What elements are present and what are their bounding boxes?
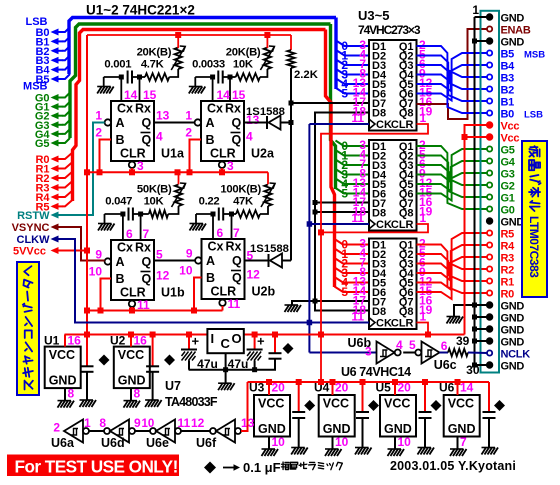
svg-text:20K(B): 20K(B) bbox=[137, 47, 172, 59]
wires blue fan to U3 D1-D6 bbox=[336, 41, 369, 47]
svg-text:1S1588: 1S1588 bbox=[250, 243, 289, 255]
svg-text:B1: B1 bbox=[501, 97, 515, 109]
pin bubble CLR of U2b bbox=[219, 300, 225, 306]
svg-text:10: 10 bbox=[142, 418, 155, 430]
svg-text:U2b: U2b bbox=[252, 285, 276, 299]
junction CLR at Vcc rail bbox=[318, 332, 324, 338]
wire Cx pin riser pin 14 bbox=[120, 77, 122, 101]
junction input cap at rail bbox=[186, 332, 192, 338]
wire pullup node vertical bbox=[290, 68, 292, 261]
resistor 10K bbox=[230, 76, 236, 78]
wire U2 GND pin 8 bbox=[130, 388, 132, 400]
pin bubble CLR of U1b bbox=[129, 301, 135, 307]
wire 5VVcc input to rail bbox=[59, 250, 87, 252]
junction Cx pin node bbox=[120, 212, 125, 217]
note text multilayer ceramic bbox=[281, 462, 288, 469]
wire U2b Q to diode D2 bbox=[245, 260, 269, 262]
wire node to U3 D7 bbox=[291, 102, 369, 104]
wire U6f output to 3.3V rail bbox=[241, 382, 248, 431]
ground bypass bbox=[355, 448, 372, 455]
ground U4 bbox=[325, 449, 342, 456]
svg-text:Q8: Q8 bbox=[399, 208, 414, 220]
wire GND bundle to ground symbol bbox=[454, 305, 475, 316]
svg-text:GND: GND bbox=[118, 374, 146, 388]
svg-text:7: 7 bbox=[460, 435, 467, 449]
junction 3.3V rail x=298.7 bbox=[296, 379, 302, 385]
svg-text:12: 12 bbox=[156, 269, 170, 283]
svg-text:U2a: U2a bbox=[251, 147, 275, 161]
connector pin 4 B5 bbox=[487, 50, 492, 55]
wire resistor to NCLK pin bbox=[468, 352, 487, 355]
svg-text:U6 74VHC14: U6 74VHC14 bbox=[341, 365, 411, 379]
svg-text:GND: GND bbox=[384, 422, 412, 436]
ground last bypass bbox=[482, 448, 499, 455]
svg-text:47K: 47K bbox=[233, 196, 254, 208]
junction GND bundle y=317 bbox=[472, 315, 477, 320]
svg-text:O: O bbox=[232, 331, 242, 346]
wire CLR net U3 bbox=[321, 124, 428, 382]
connector pin 6 B3 bbox=[487, 74, 492, 79]
svg-text:B3: B3 bbox=[501, 73, 515, 85]
power block U4 VCC/GND bbox=[319, 395, 355, 437]
junction Cx pin node bbox=[119, 75, 124, 80]
ground U2 bbox=[124, 401, 141, 408]
wire regulator common pin bbox=[225, 353, 227, 370]
capacitor bypass 0.1uF at x=298.7 bbox=[298, 382, 300, 412]
svg-text:D8: D8 bbox=[372, 306, 386, 318]
connector pin 15 G2 bbox=[487, 182, 492, 187]
junction CLR U5 at rail bbox=[425, 332, 431, 338]
svg-text:U6d: U6d bbox=[101, 436, 125, 450]
junction pot1 Vcc bbox=[175, 32, 181, 38]
ground U3 bbox=[262, 449, 279, 456]
connector pin 27 GND bbox=[487, 326, 493, 332]
connector pin 21 R3 bbox=[487, 254, 492, 259]
ground for 0.22 bbox=[195, 214, 197, 223]
svg-text:5: 5 bbox=[341, 285, 348, 299]
black net U3 D8 to U4 D7 D8 and U5 D7 D8 bbox=[315, 113, 369, 311]
connector pin 3 GND bbox=[487, 38, 493, 44]
svg-text:4.7K: 4.7K bbox=[141, 59, 165, 71]
register U3 74VHC273 bbox=[369, 40, 417, 131]
capacitor 0.0033 bbox=[195, 76, 212, 78]
wire to U5 CK bbox=[309, 322, 369, 324]
svg-text:16: 16 bbox=[134, 334, 148, 348]
wire GND pin row y=17 bbox=[475, 16, 487, 18]
capacitor bypass 1 (U1) bbox=[86, 335, 88, 367]
svg-text:Rx: Rx bbox=[135, 241, 151, 255]
junction Rx pin node bbox=[228, 75, 233, 80]
svg-text:VCC: VCC bbox=[258, 397, 284, 411]
wire GND pin row y=305 bbox=[475, 304, 487, 306]
wire U2a B to Vcc rail bbox=[190, 140, 202, 173]
svg-text:20K(B): 20K(B) bbox=[226, 47, 261, 59]
junction 3.3V rail x=332.5 bbox=[330, 379, 336, 385]
pin bubble U6f output pin 13 bbox=[235, 428, 241, 434]
svg-text:0.1 μF: 0.1 μF bbox=[243, 460, 281, 475]
wire U5 VCC riser pin 20 bbox=[394, 382, 396, 395]
svg-text:MSB: MSB bbox=[524, 50, 545, 61]
junction GND bundle y=365 bbox=[472, 363, 477, 368]
svg-text:A: A bbox=[206, 116, 215, 130]
svg-text:VCC: VCC bbox=[118, 348, 144, 362]
svg-text:RSTW: RSTW bbox=[17, 210, 50, 222]
wire Vcc rail upper (B and CLR of U1a U2a) bbox=[87, 171, 268, 173]
power block U3 VCC/GND bbox=[254, 395, 290, 437]
connector pin 9 B0 bbox=[487, 110, 492, 115]
junction Vcc rail lower x=87 bbox=[84, 308, 90, 314]
svg-text:VCC: VCC bbox=[323, 397, 349, 411]
wire diode D1 to pullup node bbox=[281, 122, 292, 124]
svg-text:G3: G3 bbox=[501, 169, 515, 181]
svg-text:Rx: Rx bbox=[226, 240, 242, 254]
junction pot2 Vcc bbox=[264, 32, 270, 38]
svg-text:0.047: 0.047 bbox=[105, 196, 132, 208]
connector pin 13 G4 bbox=[487, 158, 492, 163]
svg-text:10: 10 bbox=[179, 264, 193, 278]
capacitor 0.047 bbox=[105, 213, 123, 215]
svg-text:8: 8 bbox=[134, 387, 141, 401]
wire to U5 D7 bbox=[315, 300, 369, 302]
wire Cx pin riser pin 6 bbox=[212, 214, 214, 239]
svg-text:2: 2 bbox=[185, 126, 192, 140]
connector pin 22 R2 bbox=[487, 266, 492, 271]
junction 3.3V rail x=395 bbox=[392, 379, 398, 385]
svg-text:LSB: LSB bbox=[524, 110, 543, 121]
svg-text:TA48033F: TA48033F bbox=[165, 395, 218, 409]
junction GND bundle y=41 bbox=[472, 39, 477, 44]
wire Vcc rail y=334.5 left segment (5V) bbox=[65, 334, 208, 336]
svg-text:20: 20 bbox=[335, 381, 349, 395]
wire to U4 CK bbox=[309, 223, 369, 225]
svg-text:U3: U3 bbox=[249, 381, 265, 395]
connector pin 16 G1 bbox=[487, 194, 492, 199]
svg-text:5: 5 bbox=[409, 338, 416, 352]
svg-text:A: A bbox=[116, 255, 125, 269]
wire U1b Q to U2b A bbox=[154, 260, 195, 262]
svg-text:G5: G5 bbox=[501, 145, 515, 157]
svg-text:2003.01.05 Y.Kyotani: 2003.01.05 Y.Kyotani bbox=[390, 459, 516, 473]
svg-text:MSB: MSB bbox=[23, 81, 48, 93]
pin bubble U6e input bbox=[150, 428, 156, 434]
junction Vcc rail upper x=177.5 bbox=[175, 169, 181, 175]
wire U6 GND pin 7 bbox=[457, 437, 459, 449]
wire GND pin row y=41 bbox=[475, 40, 487, 42]
svg-text:10K: 10K bbox=[233, 59, 254, 71]
svg-text:G5: G5 bbox=[35, 138, 50, 150]
wire Vcc to 2.2K bbox=[290, 35, 292, 50]
svg-text:5VVcc: 5VVcc bbox=[13, 246, 46, 258]
ground for 0.047 bbox=[104, 214, 106, 223]
svg-text:Cx: Cx bbox=[207, 102, 223, 116]
svg-text:B: B bbox=[206, 133, 215, 147]
junction U4 D7 bbox=[313, 200, 318, 205]
label text LCD panel kanji rotated bbox=[527, 146, 541, 278]
svg-text:B: B bbox=[206, 271, 215, 285]
wires green fan to U4 D1-D6 bbox=[336, 141, 370, 147]
connector pin 19 R5 bbox=[487, 230, 492, 235]
wire U1b B to Vcc rail bbox=[101, 279, 112, 311]
pin bubble U6c input bbox=[415, 350, 421, 356]
wire U4 VCC riser pin 20 bbox=[332, 382, 334, 395]
one-shot U2b 74HC221 half bbox=[202, 239, 245, 299]
wire CK to U6b input bbox=[309, 352, 376, 354]
inverter U6b bbox=[377, 342, 395, 364]
svg-text:U1~2 74HC221×2: U1~2 74HC221×2 bbox=[86, 3, 195, 18]
wire U2a CLR to Vcc rail bbox=[221, 168, 223, 172]
svg-text:3: 3 bbox=[227, 159, 234, 173]
connector pin 14 G3 bbox=[487, 170, 492, 175]
svg-text:R3: R3 bbox=[501, 253, 515, 265]
svg-text:GND: GND bbox=[448, 422, 476, 436]
connector pin 10 Vcc bbox=[487, 122, 493, 128]
svg-text:Q: Q bbox=[142, 255, 152, 269]
ground U1 bbox=[58, 401, 75, 408]
connector pin 11 Vcc bbox=[487, 134, 493, 140]
svg-text:1: 1 bbox=[95, 109, 102, 123]
junction Cx pin node bbox=[210, 75, 215, 80]
svg-text:R4: R4 bbox=[501, 241, 516, 253]
svg-text:4: 4 bbox=[396, 338, 403, 352]
svg-text:GND: GND bbox=[258, 422, 286, 436]
diamond mark last bbox=[494, 400, 505, 411]
capacitor 0.22 bbox=[196, 213, 213, 215]
connector pin 28 GND bbox=[487, 338, 493, 344]
junction 5VVcc feed bbox=[84, 248, 90, 254]
svg-text:10: 10 bbox=[272, 435, 286, 449]
wire Rx pin riser pin 15 bbox=[139, 77, 141, 101]
wire CLR net U5 to Vcc rail bbox=[417, 323, 429, 335]
diamond mark bypass1 bbox=[99, 355, 110, 366]
svg-text:U5: U5 bbox=[376, 381, 392, 395]
svg-text:R2: R2 bbox=[501, 265, 515, 277]
wire RSTW to U1a A bbox=[59, 123, 105, 216]
wire GND bus of regulator bbox=[189, 369, 276, 371]
svg-text:0.0033: 0.0033 bbox=[192, 59, 225, 71]
diamond mark bbox=[304, 400, 315, 411]
svg-text:11: 11 bbox=[351, 211, 364, 225]
svg-text:Q: Q bbox=[232, 116, 242, 130]
svg-text:U1a: U1a bbox=[161, 147, 185, 161]
connector pin 5 B4 bbox=[487, 62, 492, 67]
potentiometer 20K(B) bbox=[260, 69, 267, 77]
wire CK vertical bbox=[308, 124, 310, 353]
svg-text:GND: GND bbox=[501, 217, 525, 229]
label box scan-converter (yellow, left) bbox=[17, 262, 39, 395]
svg-text:11: 11 bbox=[178, 416, 191, 430]
svg-text:0.22: 0.22 bbox=[199, 196, 220, 208]
svg-text:14: 14 bbox=[460, 381, 474, 395]
svg-text:VCC: VCC bbox=[448, 397, 474, 411]
svg-text:CK: CK bbox=[376, 219, 392, 231]
pin bubble U6b output bbox=[395, 350, 401, 356]
svg-text:I: I bbox=[211, 331, 215, 346]
junction Vcc rail upper x=132 bbox=[129, 169, 135, 175]
svg-text:1: 1 bbox=[185, 109, 192, 123]
svg-text:Q: Q bbox=[232, 271, 242, 285]
connector pin 26 GND bbox=[487, 314, 493, 320]
svg-text:U1b: U1b bbox=[161, 286, 185, 300]
svg-text:0.001: 0.001 bbox=[104, 59, 131, 71]
ground bypass bbox=[418, 448, 435, 455]
junction Rx pin node bbox=[137, 75, 142, 80]
svg-text:VSYNC: VSYNC bbox=[12, 222, 50, 234]
ground for D7 D8 net bbox=[285, 305, 302, 312]
note diamond legend bbox=[204, 462, 216, 474]
wire blue B-bus from inputs to U3 D inputs bbox=[62, 27, 70, 32]
one-shot U2a 74HC221 half bbox=[201, 101, 244, 161]
svg-text:Rx: Rx bbox=[225, 102, 241, 116]
junction bypass2 at rail bbox=[150, 332, 156, 338]
junction U4 CK bbox=[307, 221, 313, 227]
wire CLKW to CK distribution bbox=[59, 239, 309, 323]
junction Vcc rail lower x=132 bbox=[129, 308, 135, 314]
junction 3.3V rail x=321 bbox=[318, 379, 324, 385]
junction U2 riser at rail bbox=[128, 332, 134, 338]
connector pin 17 G0 bbox=[487, 206, 492, 211]
connector pin 29 NCLK bbox=[487, 350, 492, 355]
svg-text:3: 3 bbox=[365, 345, 372, 359]
ground bypass1 bbox=[80, 400, 97, 407]
pin bubble A input of U2b bbox=[195, 257, 201, 263]
wire to U4 D8 bbox=[315, 211, 369, 213]
capacitor 0.001 bbox=[104, 76, 122, 78]
wire U4 GND pin 10 bbox=[332, 437, 334, 449]
svg-text:B0: B0 bbox=[501, 109, 515, 121]
wire GND pin row y=317 bbox=[475, 316, 487, 318]
svg-text:Q8: Q8 bbox=[399, 108, 414, 120]
diamond mark bypass regulator bbox=[283, 343, 294, 354]
svg-text:Cx: Cx bbox=[208, 240, 224, 254]
junction Vcc rail lower x=194 bbox=[191, 308, 197, 314]
junction 3.3V rail x=362.5 bbox=[360, 379, 366, 385]
capacitor bypass 0.1uF last bbox=[488, 382, 490, 412]
resistor 2.2K bbox=[287, 50, 294, 68]
connector pin 2 ENAB bbox=[487, 26, 492, 31]
svg-text:GND: GND bbox=[501, 313, 525, 325]
svg-text:1: 1 bbox=[420, 211, 427, 225]
svg-text:D8: D8 bbox=[372, 208, 386, 220]
ground for 0.001 bbox=[103, 77, 105, 86]
wire U6c output to resistor bbox=[440, 352, 449, 354]
wire to regulator ground symbol bbox=[225, 370, 227, 383]
wire U5 GND pin 10 bbox=[394, 437, 396, 449]
wire diode D2 to pullup node bbox=[282, 260, 291, 262]
wire Rx pin riser pin 7 bbox=[140, 214, 142, 240]
junction U4 D8 bbox=[313, 210, 318, 215]
svg-text:2: 2 bbox=[53, 421, 60, 435]
pin bubble A input of U1a bbox=[105, 119, 111, 125]
wire U2b CLR to Vcc rail bbox=[222, 306, 224, 311]
resistor 4.7K bbox=[140, 76, 146, 78]
svg-text:16: 16 bbox=[68, 334, 82, 348]
wire 20K pot tops and 2.2K to Vcc line bbox=[87, 34, 291, 36]
svg-text:15: 15 bbox=[143, 88, 157, 102]
connector pin 8 B1 bbox=[487, 98, 492, 103]
svg-text:U7: U7 bbox=[165, 379, 181, 393]
svg-text:100K(B): 100K(B) bbox=[220, 184, 261, 196]
svg-text:10: 10 bbox=[335, 435, 349, 449]
svg-text:A: A bbox=[116, 116, 125, 130]
svg-text:Cx: Cx bbox=[117, 102, 133, 116]
junction regulator common bbox=[223, 367, 228, 372]
junction node D7 bbox=[289, 101, 294, 106]
pin bubble A input of U2a bbox=[195, 119, 201, 125]
svg-text:CLR: CLR bbox=[391, 318, 414, 330]
wire D7 D8 net to ground bbox=[292, 301, 315, 305]
wire Vcc pins to Vcc rail bbox=[465, 125, 487, 335]
svg-text:A: A bbox=[206, 254, 215, 268]
pin bubble U6d output pin 9 bbox=[129, 428, 135, 434]
junction Vcc rail lower x=100.5 bbox=[98, 308, 104, 314]
junction 3.3V rail x=269 bbox=[266, 379, 272, 385]
svg-text:1: 1 bbox=[472, 3, 479, 17]
svg-text:1: 1 bbox=[420, 111, 427, 125]
wire U2b B to Vcc rail bbox=[194, 278, 202, 311]
svg-text:CK: CK bbox=[376, 119, 392, 131]
svg-text:D8: D8 bbox=[372, 108, 386, 120]
svg-text:B4: B4 bbox=[501, 61, 516, 73]
wire U3 GND pin 10 bbox=[268, 437, 270, 449]
svg-text:B2: B2 bbox=[501, 85, 515, 97]
svg-text:GND: GND bbox=[49, 374, 77, 388]
svg-text:CK: CK bbox=[376, 318, 392, 330]
svg-text:VCC: VCC bbox=[384, 397, 410, 411]
power block U5 VCC/GND bbox=[380, 395, 416, 437]
pin bubble U6f input bbox=[210, 428, 216, 434]
svg-text:1: 1 bbox=[84, 416, 91, 430]
svg-text:Q: Q bbox=[142, 272, 152, 286]
resistor 39 bbox=[448, 349, 468, 356]
wire U1 VCC riser pin 16 bbox=[64, 335, 66, 347]
junction 3.3V rail x=425 bbox=[422, 379, 428, 385]
wire U6e to U6f bbox=[181, 430, 210, 432]
svg-text:ENAB: ENAB bbox=[501, 25, 531, 37]
capacitor bypass 0.1uF at x=362.5 bbox=[362, 382, 364, 412]
svg-text:2.2K: 2.2K bbox=[294, 69, 319, 81]
wire U6 VCC riser pin 14 bbox=[457, 382, 459, 395]
svg-text:CLR: CLR bbox=[391, 219, 414, 231]
diode D1 1S1588 bbox=[266, 116, 268, 129]
wire to U4 D7 bbox=[315, 202, 369, 204]
svg-text:1: 1 bbox=[420, 310, 427, 324]
svg-text:20: 20 bbox=[272, 381, 286, 395]
svg-text:11: 11 bbox=[351, 310, 364, 324]
junction node diode D1 bbox=[289, 120, 294, 125]
svg-text:9: 9 bbox=[95, 248, 102, 262]
potentiometer 50K(B) bbox=[168, 206, 178, 214]
connector pin 24 R0 bbox=[487, 290, 492, 295]
capacitor 47u output bbox=[254, 335, 256, 350]
svg-text:U6e: U6e bbox=[146, 436, 169, 450]
svg-text:GND: GND bbox=[501, 361, 525, 373]
connector pin 30 GND bbox=[487, 362, 493, 368]
wire U1 GND pin 8 bbox=[64, 388, 66, 400]
svg-text:Vcc: Vcc bbox=[501, 121, 520, 133]
junction Vcc pin 11 bbox=[462, 134, 468, 140]
pin bubble CLR of U2a bbox=[219, 162, 225, 168]
connector pin 25 GND bbox=[487, 302, 493, 308]
power block U2 VCC/GND bbox=[114, 347, 150, 389]
svg-text:39: 39 bbox=[456, 334, 470, 348]
svg-text:1S1588: 1S1588 bbox=[246, 106, 285, 118]
junction bypass cap at rail bbox=[272, 332, 278, 338]
wires blue bundle U3 Q1-Q6 to connector B0-B5 bbox=[417, 46, 487, 113]
junction rail-vertical bbox=[84, 332, 90, 338]
junction CLR U4 branch bbox=[318, 229, 324, 235]
svg-text:Q: Q bbox=[232, 133, 242, 147]
wire Rx pin riser pin 7 bbox=[231, 214, 233, 239]
